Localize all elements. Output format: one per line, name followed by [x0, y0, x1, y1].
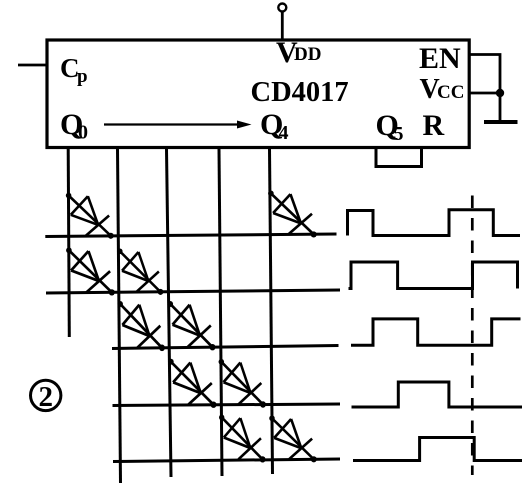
- svg-text:4: 4: [279, 122, 289, 144]
- svg-text:0: 0: [78, 122, 88, 144]
- svg-text:R: R: [423, 109, 445, 142]
- svg-text:p: p: [77, 66, 88, 87]
- svg-text:CC: CC: [437, 82, 464, 103]
- svg-text:2: 2: [38, 381, 53, 413]
- svg-text:5: 5: [394, 123, 404, 145]
- svg-text:CD4017: CD4017: [251, 77, 349, 108]
- svg-text:EN: EN: [419, 42, 461, 75]
- svg-text:DD: DD: [294, 44, 321, 65]
